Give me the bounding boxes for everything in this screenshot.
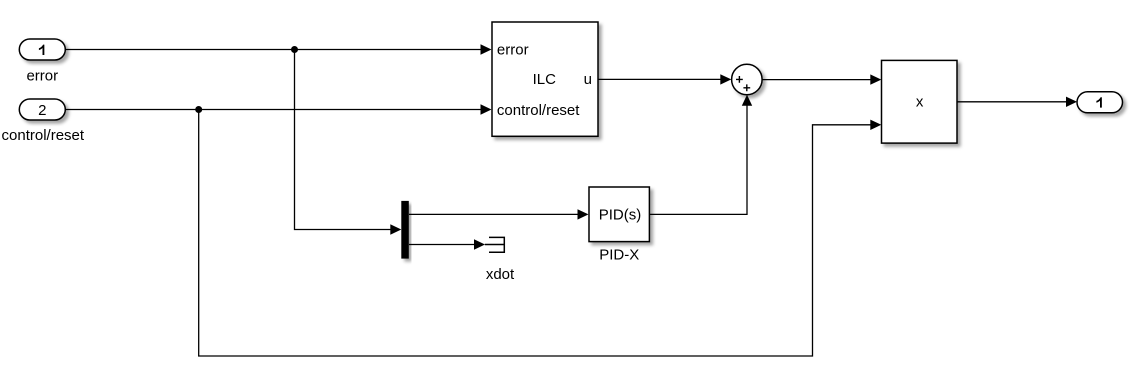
wire Product to Outport — [957, 97, 1077, 107]
wire Demux out2 to Terminator — [409, 239, 485, 249]
wire control/reset: Inport2 to ILC — [66, 104, 492, 114]
wire Demux out1 to PID-X — [409, 209, 589, 219]
svg-text:PID-X: PID-X — [599, 246, 639, 263]
demux — [401, 201, 409, 259]
product block — [882, 60, 958, 143]
svg-text:control/reset: control/reset — [497, 102, 580, 119]
inport 1 — [19, 39, 65, 60]
svg-text:ILC: ILC — [533, 71, 557, 88]
wire Sum to Product — [762, 74, 881, 84]
wire error branch to Demux — [295, 50, 402, 235]
svg-text:PID(s): PID(s) — [599, 206, 642, 223]
svg-text:xdot: xdot — [486, 266, 515, 283]
svg-text:x: x — [916, 93, 924, 110]
wire error: Inport1 to ILC — [65, 44, 492, 54]
wire ILC u to Sum — [598, 74, 731, 84]
svg-text:control/reset: control/reset — [2, 127, 85, 144]
outport 1 — [1077, 92, 1123, 113]
sum block — [732, 64, 763, 95]
svg-text:u: u — [584, 71, 592, 88]
terminator xdot — [485, 237, 505, 252]
inport 2 — [19, 99, 65, 120]
wire control/reset feedback branch to Product — [199, 110, 882, 357]
junction on control/reset wire — [195, 106, 202, 113]
svg-text:error: error — [497, 41, 529, 58]
svg-text:error: error — [26, 67, 58, 84]
junction on error wire — [291, 46, 298, 53]
svg-text:2: 2 — [38, 102, 46, 119]
wire PID-X to Sum bottom — [649, 95, 752, 215]
PID-X block — [589, 187, 649, 242]
ILC subsystem block — [492, 22, 598, 136]
